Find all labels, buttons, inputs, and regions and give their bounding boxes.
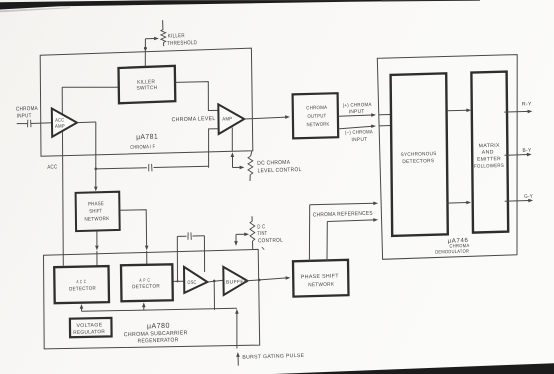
label ACC AMP [55,118,65,130]
wire killer switch left input [62,86,118,88]
wire output B-Y [505,153,532,157]
svg-text:INPUT: INPUT [17,113,32,119]
label CHROMA OUTPUT NETWORK [306,105,330,128]
label uA781 [136,132,158,142]
matrix and emitter followers block [471,72,508,233]
svg-text:AMP: AMP [55,124,65,130]
wire killer threshold wiper arrow [145,37,159,41]
label CHROMA REFERENCES [313,211,373,219]
svg-text:CONTROL: CONTROL [258,238,283,245]
label DC CHROMA LEVEL CONTROL [257,160,301,175]
svg-text:(−) CHROMA: (−) CHROMA [345,129,373,136]
label REGENERATOR [137,337,178,344]
capacitor chroma input coupling [28,120,31,127]
wire sync to matrix upper [447,109,471,113]
op-amp ACC AMP [52,109,77,137]
svg-text:AMP: AMP [222,116,232,122]
wire burst gating pulse outside [236,352,240,366]
svg-text:EMITTER: EMITTER [477,156,501,163]
svg-text:KILLER: KILLER [168,33,185,40]
svg-text:ACC: ACC [47,164,57,170]
svg-text:DC CHROMA: DC CHROMA [257,160,290,167]
svg-text:μA780: μA780 [147,321,170,331]
chroma output network block [293,93,339,138]
wire capacitor loop top [177,235,204,238]
wire ACC AMP output [77,121,96,124]
wire gating line [82,308,237,311]
label APC DETECTOR [132,278,160,291]
wire AMP output to chroma output network [244,115,290,119]
svg-text:R-Y: R-Y [522,101,532,107]
svg-text:SWITCH: SWITCH [136,85,157,92]
svg-text:TINT: TINT [257,231,267,237]
wire PSN to APC detector [120,210,149,265]
svg-text:VOLTAGE: VOLTAGE [76,322,103,329]
svg-text:FOLLOWERS: FOLLOWERS [474,163,504,170]
wire (+) chroma input [338,113,390,117]
label PHASE SHIFT NETWORK left [84,201,109,223]
voltage regulator block [70,318,112,337]
label OSC [187,280,196,286]
svg-text:B-Y: B-Y [522,148,531,154]
wire buffer output to phase shift network [247,276,290,281]
node feedback junction [95,168,98,171]
wire output G-Y [505,199,533,203]
svg-text:CHROMA: CHROMA [449,243,470,250]
killer switch block [119,66,176,104]
resistor DC chroma level control pot [248,151,253,181]
phase shift network block (left) [76,192,120,231]
node OSC output junction [213,280,216,283]
svg-text:NETWORK: NETWORK [308,282,334,289]
wire feedback with capacitor [96,166,209,169]
wire capacitor loop right [203,236,205,272]
svg-text:PHASE SHIFT: PHASE SHIFT [301,273,340,280]
IC block uA746 chroma demodulator outer box [377,55,517,260]
wire sync to matrix lower [447,201,471,205]
wire chroma reference upper [309,202,378,262]
wire (-) chroma input [338,125,390,129]
wire PSN to ACC detector [95,231,99,267]
svg-text:SYCHRONOUS: SYCHRONOUS [400,151,436,158]
ACC detector block [54,266,109,303]
buffer amplifier triangle [223,267,247,295]
label DC TINT CONTROL [257,224,283,244]
APC detector block [121,264,173,301]
svg-text:INPUT: INPUT [349,109,365,115]
svg-text:BUFFER: BUFFER [226,279,248,286]
wire arrow into ACC detector bottom [80,304,84,311]
label PHASE SHIFT NETWORK right [301,273,340,288]
label AMP [222,116,232,122]
svg-text:OUTPUT: OUTPUT [307,113,326,120]
node junction dot on killer line [144,47,147,50]
label G-Y [524,194,533,200]
wire tint control stub [262,247,264,250]
svg-text:REGULATOR: REGULATOR [73,329,105,336]
svg-text:NETWORK: NETWORK [306,122,329,129]
wire OSC feedback to detectors [213,281,215,310]
op-amp AMP chroma level [218,104,244,134]
label R-Y [522,101,532,107]
wire killer switch to killer threshold [144,39,146,66]
wire chroma reference lower [327,218,378,262]
synchronous detectors block [391,73,448,236]
svg-text:CHROMA: CHROMA [16,106,38,113]
wire AMP bias to dc level pin [231,128,233,151]
wire APC to OSC [174,280,185,282]
label BURST GATING PULSE [242,353,304,361]
svg-text:AND: AND [482,149,494,155]
svg-text:NETWORK: NETWORK [84,216,109,223]
wire arrow into APC detector bottom [142,302,146,310]
label VOLTAGE REGULATOR [73,322,105,336]
label CHROMA LEVEL [171,116,215,123]
label uA746 [447,237,468,245]
label ACC [47,164,57,170]
svg-text:DETECTOR: DETECTOR [132,283,160,290]
IC block uA780 outer box [44,249,260,349]
svg-text:CHROMA I F: CHROMA I F [130,144,155,151]
IC block uA781 CHROMA IF outer box [40,48,253,156]
svg-text:DEMODULATOR: DEMODULATOR [435,249,469,256]
node buffer output at box edge [258,279,261,282]
svg-text:THRESHOLD: THRESHOLD [167,40,197,47]
label KILLER SWITCH [136,79,157,91]
wire tint wiper [234,233,249,246]
capacitor uA781 feedback [149,164,152,171]
label CHROMA INPUT [16,106,38,120]
svg-text:MATRIX: MATRIX [479,143,501,150]
capacitor OSC loop [188,232,191,239]
svg-text:SHIFT: SHIFT [89,208,103,214]
svg-text:INPUT: INPUT [351,137,367,143]
svg-text:CHROMA: CHROMA [306,105,327,112]
svg-text:μA781: μA781 [136,132,158,142]
label (-) CHROMA INPUT [345,129,373,143]
svg-text:G-Y: G-Y [524,194,533,200]
wire dc chroma level wiper [231,152,245,169]
svg-text:REGENERATOR: REGENERATOR [137,337,178,344]
svg-text:D C: D C [257,224,265,230]
label MATRIX AND EMITTER FOLLOWERS [474,143,504,170]
label CHROMA IF [130,144,155,151]
wire OSC to buffer [207,280,223,282]
label uA780 [147,321,170,331]
svg-text:DETECTORS: DETECTORS [402,158,435,165]
svg-text:A C C: A C C [76,279,86,285]
label CHROMA demodulator [449,243,470,250]
label KILLER THRESHOLD [167,33,197,47]
wire burst gating inside [235,309,239,349]
wire down to phase shift network [94,122,98,191]
wire capacitor loop left [176,236,178,281]
svg-text:PHASE: PHASE [88,201,104,207]
resistor killer threshold pot [161,20,166,46]
svg-text:DETECTOR: DETECTOR [69,286,96,293]
wire AMP lower input [209,129,219,168]
wire output R-Y [504,110,532,114]
label SYCHRONOUS DETECTORS [400,151,436,165]
oscillator OSC triangle [184,267,207,293]
svg-text:OSC: OSC [187,280,196,286]
label CHROMA SUBCARRIER [124,330,188,338]
wire CHROMA INPUT line [17,122,52,125]
label ACC DETECTOR [69,279,96,292]
phase shift network block (right) [293,260,349,297]
label B-Y [522,148,531,154]
wire killer switch to AMP upper input [175,82,218,111]
label (+) CHROMA INPUT [343,102,372,115]
resistor DC tint control pot [250,216,255,249]
label BUFFER [226,279,248,286]
svg-text:(+) CHROMA: (+) CHROMA [343,102,372,109]
node cap loop left junction [176,280,178,282]
wire ACC line vertical (under ACC AMP) [62,87,63,265]
label DEMODULATOR [435,249,469,256]
